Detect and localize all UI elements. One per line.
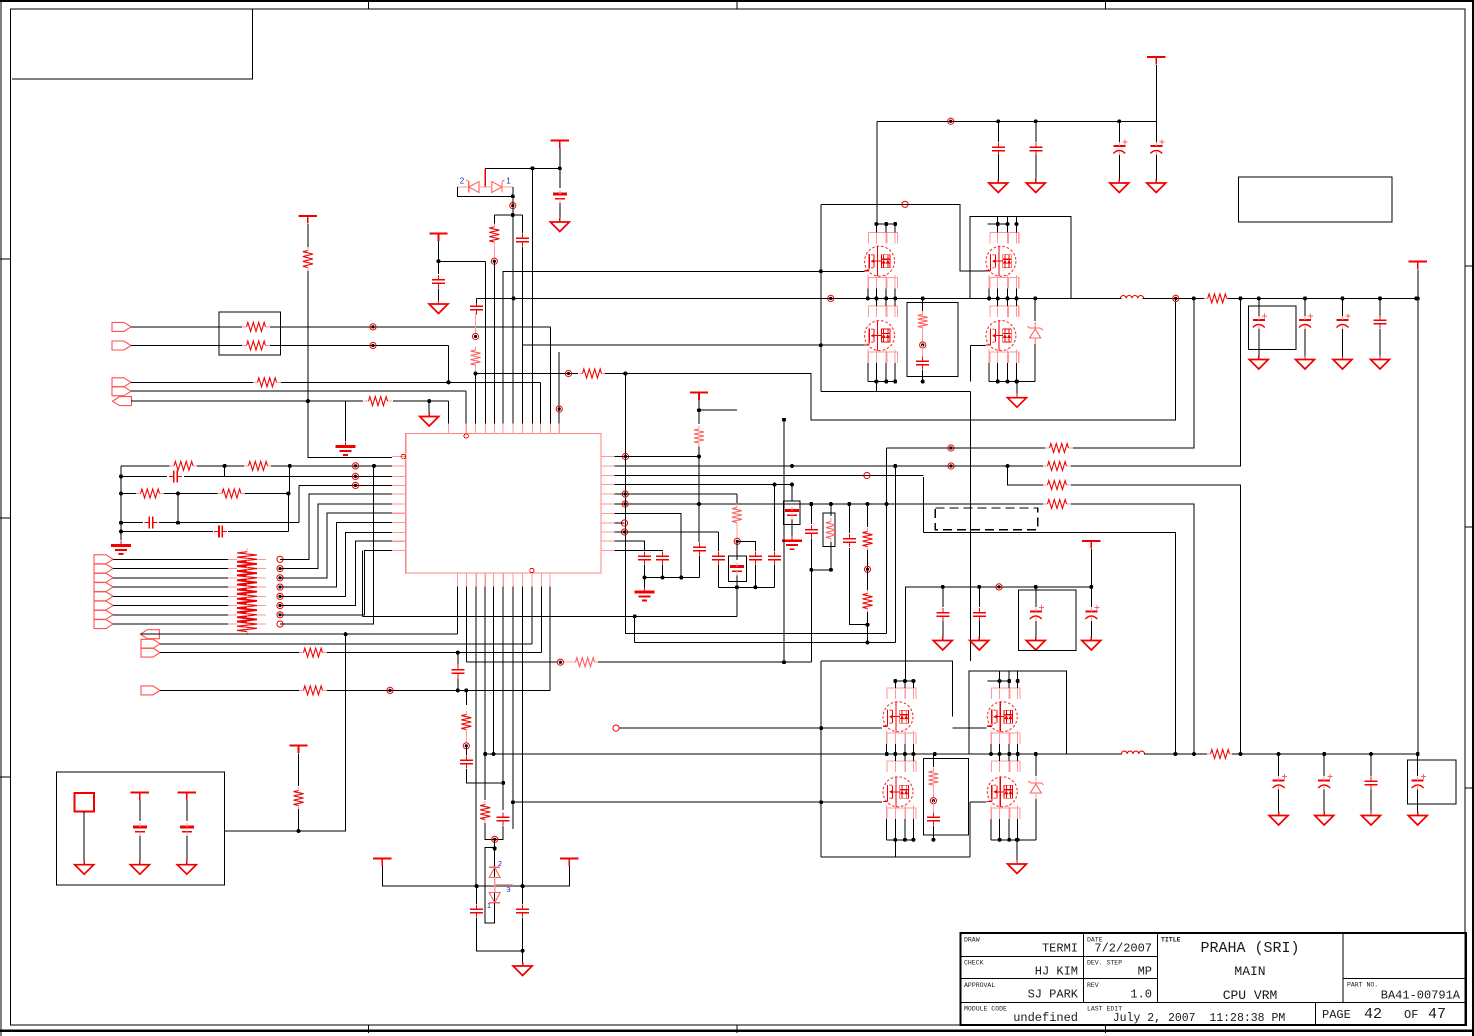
transistor Q6 pads bottom [991, 733, 1020, 744]
wire x867 bot [867, 612, 869, 643]
power flag VD1 [690, 393, 708, 401]
wire row466 [615, 465, 1044, 467]
resistor R10 [218, 489, 246, 498]
wire y886 mid [477, 885, 523, 887]
legend stem 1 [83, 812, 85, 862]
wire zener drop [1034, 298, 1036, 321]
wire J15 line [160, 643, 532, 645]
wire y261 to pin [439, 260, 486, 262]
transistor Q5 MOSFET [883, 702, 913, 732]
title block value HJ KIM [1035, 965, 1078, 979]
svg-text:SJ PARK: SJ PARK [1028, 988, 1079, 1002]
diode D3 zener [1028, 322, 1043, 344]
inductor L2 [1121, 751, 1144, 754]
resistor R25 [1043, 462, 1071, 471]
wire x699 b [698, 447, 700, 543]
wire J16 line [160, 652, 299, 654]
wire source bar2 to loop [894, 840, 896, 857]
wire source bar low 2 [989, 381, 1035, 383]
junction x867 bot [866, 623, 870, 627]
spare reference box [1238, 177, 1392, 222]
power flag VR2 [429, 234, 447, 242]
title block value undefined [1013, 1011, 1078, 1025]
wire chain x466 c [466, 769, 503, 783]
via row523 [621, 520, 627, 526]
capacitor C14 [749, 551, 762, 564]
wire boxcap2 stem [791, 485, 793, 502]
resistor R8 [244, 461, 272, 470]
junction supply caps [996, 119, 1121, 123]
resistor R17 harness [237, 604, 257, 626]
transistor Q3 MOSFET [864, 321, 894, 351]
diode D4 [489, 867, 500, 877]
capacitor C supply2 x942.75 [936, 608, 949, 621]
wire capB col [774, 485, 776, 552]
via R1 bottom [491, 258, 497, 264]
wire capA top [737, 541, 755, 551]
wire loop right b [830, 542, 832, 570]
junction supply2 [941, 585, 1094, 589]
frame zone tick left-1 [0, 258, 11, 260]
transistor Q3 drain pins [876, 298, 895, 317]
lead R18 harness [228, 623, 266, 625]
via harness row 2 [277, 565, 283, 571]
wire R35 bot [298, 809, 300, 831]
ground G3 [420, 413, 439, 427]
power flag VR4 [289, 745, 307, 753]
svg-text:HJ KIM: HJ KIM [1035, 965, 1078, 979]
svg-text:1.0: 1.0 [1130, 988, 1152, 1002]
resistor R20 [299, 686, 327, 695]
gate wires Q4b [971, 345, 986, 347]
junction rail 1194 [1192, 296, 1196, 300]
wire x867 mid2 [867, 569, 869, 590]
frame zone tick right-2 [1465, 526, 1474, 528]
title block label APPROVAL [964, 982, 995, 989]
wire zener2 bot [1035, 799, 1037, 840]
wire J4 line [131, 390, 466, 392]
supply2 cap box [1018, 590, 1076, 651]
wire 5V supply bottom [906, 587, 1092, 681]
junction rail x513 [512, 296, 1038, 300]
ground G5 earth [111, 541, 131, 555]
title block value MAIN [1234, 964, 1265, 979]
legend capacitor 3 [180, 823, 194, 836]
svg-text:MODULE CODE: MODULE CODE [964, 1006, 1007, 1013]
wire cap drop x1156.25 [1155, 121, 1157, 142]
wire J2 line [131, 345, 242, 347]
power flag VCC top [551, 141, 569, 149]
resistor R29 [732, 504, 742, 526]
svg-text:APPROVAL: APPROVAL [964, 982, 995, 989]
resistor R12 harness [237, 558, 257, 580]
svg-text:TERMI: TERMI [1042, 942, 1078, 956]
ground G supply2 x942.75 [933, 637, 952, 651]
capacitor C pol supply2 x1091.3 [1085, 605, 1099, 621]
power flag supply bottom [1082, 541, 1100, 549]
via row494 [622, 491, 628, 497]
power flag supply top [1147, 57, 1165, 65]
transistor Q2 drain pins [998, 224, 1017, 244]
wire y886 right [523, 866, 570, 886]
junction R2 on C5 line [306, 399, 310, 403]
wire vout cap drop x1305 [1304, 298, 1306, 316]
wire drain bar TL [875, 223, 896, 225]
frame zone tick top-center [736, 0, 738, 9]
wire diode center tap [484, 168, 486, 181]
wire J3 line [131, 381, 253, 383]
wire diode bot lead [494, 903, 496, 923]
transistor Q1 pads bottom [869, 278, 898, 289]
ground G vout x1380 [1371, 356, 1390, 370]
wire y410 branch [699, 409, 737, 411]
connector J11 arrow [94, 601, 113, 610]
wire R2 to L1 jog [308, 271, 392, 457]
gate wires Q1 [821, 270, 865, 272]
wire cap to gnd x1156.25 [1155, 155, 1157, 180]
wire harness row 1 [113, 558, 228, 560]
wire via col to row633 [626, 457, 887, 634]
wire rc row6 b [228, 531, 288, 533]
ground G4 earth [336, 442, 356, 456]
junction x699 [697, 408, 701, 458]
wire VR3 to R [307, 224, 309, 247]
resistor R15 harness [237, 585, 257, 607]
title block label REV [1087, 982, 1099, 989]
wire rc row3 (L4) [299, 484, 392, 486]
connector J10 arrow [94, 592, 113, 601]
wire VIN T drop [1417, 270, 1419, 755]
ground G supply2 x979.25 [970, 637, 989, 651]
pin label 3 diode [506, 885, 510, 894]
svg-text:TITLE: TITLE [1161, 937, 1181, 944]
boxed resistor box [823, 513, 835, 547]
junctions J17 line [456, 688, 469, 692]
pin number 1 label D1 [506, 177, 511, 186]
wire x923 jog [922, 477, 924, 533]
resistor R26 [1043, 481, 1071, 490]
wire x867 chain [867, 504, 869, 527]
wire vout2 cap drop x1278.6 [1278, 754, 1280, 776]
wire supply2 cap drop x1091.3 [1090, 587, 1092, 607]
resistor R23 snubber [918, 311, 928, 331]
wire C12 bot [662, 565, 664, 578]
wire harness row 5 [113, 595, 228, 597]
transistor Q4 pads bottom [990, 352, 1019, 363]
ground G vout2 x1371 [1362, 812, 1381, 826]
wire staircase 7 [280, 550, 392, 614]
ground G vout2 x1324.2 [1315, 812, 1334, 826]
via net FB1 [565, 370, 571, 376]
ground G9 [513, 962, 532, 976]
transistor Q2 pads top [990, 233, 1019, 244]
wire supply2 cap gnd x979.25 [978, 621, 980, 637]
via rc row2 [352, 473, 358, 479]
connector J6 arrow [94, 555, 113, 564]
series resistor box [219, 312, 280, 355]
lead R15 harness [228, 595, 266, 597]
controller IC U1 body [406, 434, 601, 574]
IC U1 left pins [392, 454, 406, 550]
via chain x466 [463, 743, 469, 749]
junction x784 top [782, 418, 786, 422]
transistor Q6 source pins [991, 731, 1018, 755]
wire loop left [810, 504, 812, 524]
wire 5V supply top [877, 120, 1156, 122]
resistor R6 [364, 397, 392, 406]
snubber box bottom cluster [924, 759, 969, 835]
junction rail2 mid [1034, 752, 1196, 756]
wire J5 branch down [345, 401, 347, 441]
wire T to supply [1155, 65, 1157, 121]
resistor R27 [1043, 500, 1071, 509]
wire source bar low 1 [868, 381, 895, 383]
lead R29 [736, 526, 738, 538]
via J1 line [370, 324, 376, 330]
capacitor C13 boxed [730, 563, 744, 576]
transistor Q1 MOSFET [864, 246, 894, 276]
junction y587 [753, 585, 757, 589]
ground G2 [429, 300, 448, 314]
wire pin 522 col [522, 247, 524, 424]
wire pin b5 drop [493, 587, 495, 755]
junctions rc row4 [119, 492, 290, 496]
wire row456 [615, 456, 700, 458]
junction gate LG1 [819, 343, 823, 347]
connector J15 arrow [141, 639, 160, 648]
wire J2 drop [448, 346, 450, 383]
wire J4 drop to pin [465, 391, 467, 423]
junction vin rail [1416, 296, 1420, 300]
wire cluster interconnect [970, 391, 972, 661]
svg-text:REV: REV [1087, 982, 1099, 989]
via pin475 chain [472, 333, 478, 339]
wire node y215 [494, 214, 522, 216]
wire T2 to supply [1090, 549, 1092, 587]
via harness row 7 [277, 612, 283, 618]
capacitor C22 snubber2 [927, 812, 940, 825]
via supply2 [996, 584, 1002, 590]
title block label TITLE [1161, 937, 1181, 944]
wire gate line UG2 [620, 727, 822, 729]
title block label DRAW [964, 937, 980, 944]
wire C7 top [457, 653, 459, 664]
wire supply2 cap drop x1035.75 [1035, 587, 1037, 607]
svg-text:1: 1 [506, 177, 511, 186]
wire x699 a [698, 400, 700, 424]
wire cap C20 top [476, 886, 478, 904]
lead resistor R1 [493, 246, 495, 258]
capacitor C20 [470, 904, 483, 917]
ground G10 [1008, 860, 1027, 874]
via J17 line [387, 687, 393, 693]
capacitor C pol vout2 x1324.2 [1318, 774, 1332, 790]
lead diode center [484, 168, 486, 186]
diode D5 [489, 893, 500, 903]
transistor Q2 MOSFET [986, 246, 1016, 276]
legend capacitor 2 [133, 823, 147, 836]
wire x737 to y616 [736, 587, 738, 616]
capacitor C23 [712, 551, 725, 564]
gate wires Q3 [821, 344, 865, 346]
diode D1 [492, 180, 505, 193]
resistor R2 vertical [303, 247, 313, 271]
capacitor C9 snubber [916, 356, 929, 369]
ground G x1119.25 [1110, 179, 1129, 193]
transistor Q7 pads bottom [887, 808, 916, 819]
title block value MP [1138, 965, 1152, 979]
wire harness row 6 [113, 605, 228, 607]
ground G7 earth [635, 587, 655, 601]
wire supply2 cap gnd x942.75 [942, 621, 944, 637]
via row662 [557, 659, 563, 665]
wire diode bracket [457, 187, 512, 196]
capacitor C19 [460, 755, 473, 768]
svg-text:CHECK: CHECK [964, 960, 984, 967]
wire rc v289 [289, 466, 291, 494]
wire via to diode box [494, 839, 496, 848]
title block value TERMI [1042, 942, 1078, 956]
junctions rc row6 [119, 530, 123, 534]
resistor R34 [461, 711, 471, 733]
title block grid [961, 933, 1467, 1025]
wire cap to gnd x998.25 [997, 155, 999, 180]
junction pin b7 [511, 800, 515, 804]
wire C22 bot [932, 826, 934, 840]
svg-text:PAGE: PAGE [1322, 1008, 1351, 1022]
dashed option box [935, 508, 1037, 530]
transistor Q8 source pins [991, 806, 1018, 840]
wire vout cap gnd x1342.5 [1342, 329, 1344, 356]
resistor R4 [242, 341, 270, 350]
junction dots on y168 [531, 166, 562, 170]
junction gate UG1 [819, 269, 823, 273]
title block label PART NO [1347, 982, 1378, 989]
connector J1 arrow [112, 322, 131, 331]
junction row484 [773, 483, 795, 487]
via pin559 [556, 406, 562, 412]
wire J17 line [160, 689, 299, 691]
ground G vout2 x1417.7 [1408, 812, 1427, 826]
capacitor C2 [553, 190, 567, 203]
wire C9 bot [922, 370, 924, 382]
via row448 [948, 445, 954, 451]
capacitor C pol supply2 x1035.75 [1030, 605, 1044, 621]
transistor Q4 drain pins [998, 298, 1017, 317]
junction pin475 [474, 372, 628, 376]
ground G x998.25 [989, 179, 1008, 193]
svg-text:PRAHA (SRI): PRAHA (SRI) [1200, 940, 1299, 957]
wire J17 line b [327, 689, 550, 691]
gate wires Q8 [970, 802, 986, 840]
via harness row 6 [277, 602, 283, 608]
wire loop left b [810, 539, 812, 570]
wire vout2 cap gnd x1371 [1370, 790, 1372, 813]
capacitor C pol x1156.25 [1150, 139, 1164, 155]
junctions rc row1 [119, 464, 376, 479]
wire snubber stub [922, 298, 924, 311]
connector J2 arrow [112, 341, 131, 350]
svg-text:DEV. STEP: DEV. STEP [1087, 960, 1122, 967]
title block label DEV STEP [1087, 960, 1122, 967]
lead C9 [922, 345, 924, 356]
wire chain x466 b [465, 746, 467, 755]
wire J16 line b [327, 652, 541, 654]
wire L4 jog down [298, 485, 300, 522]
wire loop bottom right [969, 840, 971, 857]
wire drain bar BR [988, 680, 1010, 682]
junctions rc row5 [119, 521, 180, 525]
wire C2 to gnd [559, 203, 561, 218]
wire vout cap drop x1380 [1379, 298, 1381, 316]
wire row550 cap [615, 550, 663, 553]
junction row642 [633, 614, 870, 644]
wire zener bot [1034, 344, 1036, 382]
wire phase rail 1 [477, 297, 1122, 299]
wire VR2 down [438, 241, 440, 261]
svg-text:MP: MP [1138, 965, 1152, 979]
wire VCC to node [559, 148, 561, 168]
frame zone tick bottom-left [368, 1025, 370, 1033]
wire right box top cluster [970, 217, 1071, 299]
capacitor C1 [516, 233, 529, 246]
boxed capacitor box [729, 556, 747, 582]
svg-text:3: 3 [506, 885, 510, 894]
wire J5 line right [393, 400, 449, 402]
connector J16 arrow [141, 648, 160, 657]
wire rc row6 [121, 531, 213, 533]
wire diode top lead [494, 849, 496, 863]
title block label PAGE [1322, 1008, 1351, 1022]
wire pin b9 drop [531, 587, 533, 644]
power flag VIN right [1409, 262, 1427, 270]
gate wires Q2 [960, 270, 986, 272]
wire IC pin bus x532 [532, 168, 534, 423]
power flag VD3 [560, 859, 578, 867]
wire cap junction row [645, 577, 700, 579]
junction loop [809, 568, 833, 572]
pin label 2 diode [498, 859, 502, 868]
wire right box bottom cluster [969, 671, 1067, 754]
wire vout2 cap gnd x1324.2 [1323, 790, 1325, 813]
wire y587 row [718, 586, 774, 588]
transistor Q5 source pins [887, 731, 914, 755]
legend ground triangle 2 [130, 861, 149, 875]
transistor Q1 pads top [869, 233, 898, 244]
resistor R30 boxed [826, 518, 836, 542]
via snubber [920, 342, 926, 348]
wire J5 to pin 448 [448, 401, 450, 423]
wire x811 drop [811, 570, 813, 662]
connector J7 arrow [94, 564, 113, 573]
svg-text:47: 47 [1428, 1006, 1446, 1023]
via harness row 8 [277, 621, 283, 627]
frame zone tick top-left [368, 0, 370, 9]
wire rc row1 b [197, 465, 245, 467]
legend power bar 2 [131, 793, 149, 801]
capacitor C pol vout x1305 [1299, 313, 1313, 329]
frame zone tick left-3 [0, 776, 11, 778]
capacitor C5 [144, 517, 157, 529]
wire pin 485 drop [485, 261, 487, 423]
via harness row 3 [277, 575, 283, 581]
resistor R32 [572, 658, 598, 667]
diode D2 [466, 180, 479, 193]
wire cap to gnd x1035.75 [1035, 155, 1037, 180]
wire rail left end [476, 298, 478, 303]
junction row466 [790, 464, 1010, 468]
wire rc row5 b [159, 522, 299, 524]
